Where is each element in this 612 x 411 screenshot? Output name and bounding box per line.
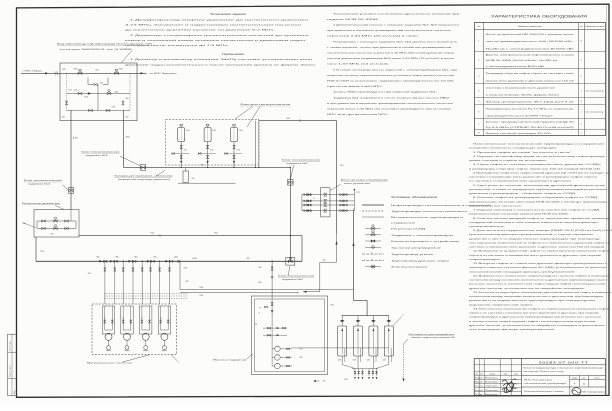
svg-text:#4: #4 [313,197,315,199]
svg-text:#002: #002 [119,69,123,71]
svg-text:#65: #65 [192,178,195,180]
filter F1 bypass link [172,153,189,155]
drawing name and organization cell [524,387,606,396]
svg-text:Технологическая схема: Технологическая схема [524,391,566,393]
main pump unit H3 [140,306,152,351]
svg-text:вертикальными насосами агрегат: вертикальными насосами агрегатами НОВ 50… [469,214,570,216]
collector line 900 horizontal [123,166,290,168]
svg-text:Ру 4,0 МПа (СППК4Р-50-40 Рн=30: Ру 4,0 МПа (СППК4Р-50-40 Рн=30 кгс/см2) [486,127,575,129]
object name cell and sheet cells [522,375,606,387]
svg-text:#900: #900 [126,137,130,139]
main pump unit H1 [102,306,114,351]
svg-text:сооружений оттоками в пластико: сооружений оттоками в пластиковых емкост… [469,221,600,224]
valve unit 3 label [82,151,141,165]
svg-text:НПС или при включении НПС.: НПС или при включении НПС. [327,114,390,116]
makeup pump block enclosure [251,296,327,375]
svg-text:грязеуловителях.: грязеуловителях. [469,226,506,228]
svg-text:полным давлением (задвижками №: полным давлением (задвижками №2) выше 2,… [327,57,455,60]
svg-text:#010: #010 [95,70,99,72]
svg-text:с электродвигателем Вт90 кВт: с электродвигателем Вт90 кВт [486,66,545,68]
check valve row on discharge line [96,256,198,262]
svg-text:запаса нефти при пожаре t50: запаса нефти при пожаре t50 [411,336,455,339]
damping system block label [330,179,388,190]
svg-text:#622: #622 [330,305,334,307]
surge tank E2 [354,316,363,362]
pressure regulator box [34,210,79,238]
svg-text:Вспомогательные трубопроводы: Вспомогательные трубопроводы и [391,217,465,219]
inlet valve unit box [60,63,137,121]
svg-text:с таким порогом, чтобы при дав: с таким порогом, чтобы при давлении в ли… [327,46,453,49]
svg-text:13 Заслонки на водосбросе опоз: 13 Заслонки на водосбросе опознавании др… [473,291,612,294]
svg-text:по аналогу: по аналогу [586,111,604,113]
svg-text:задвижек №1: задвижек №1 [286,162,310,165]
svg-text:Н.контр.: Н.контр. [475,390,484,392]
svg-text:Разраб.: Разраб. [475,378,484,380]
svg-text:#726: #726 [40,251,44,253]
svg-text:Ракитина: Ракитина [485,378,498,380]
main pipeline outlet line [137,72,178,75]
svg-text:нефтепроводов.: нефтепроводов. [469,258,502,261]
technical notes text column 1 [125,12,317,66]
makeup manifold row 2 [263,334,287,336]
svg-text:7 Подъем чаевками в незакончен: 7 Подъем чаевками в незаконченно-сваленн… [473,209,600,212]
svg-text:#325: #325 [246,258,250,260]
technical notes text column 2 [327,13,461,116]
svg-text:Взам.: Взам. [14,390,16,395]
svg-text:(на контракт 2000/24290-91, ин: (на контракт 2000/24290-91, инв. № 10383… [60,48,132,51]
svg-text:#229: #229 [353,359,357,361]
svg-text:ХАРАКТЕРИСТИКА ОБОРУДОВАНИЯ: ХАРАКТЕРИСТИКА ОБОРУДОВАНИЯ [491,13,587,18]
damping block row 4 [302,209,355,212]
gate valve 1 with electric drive [74,69,83,75]
svg-text:камер и телевизной камер основ: камер и телевизной камер основных космет… [125,39,305,42]
svg-text:#700: #700 [150,233,154,235]
svg-text:#015: #015 [115,92,119,94]
svg-text:от системы сглаживания волн да: от системы сглаживания волн давления и д… [469,181,573,183]
main pump house label [87,355,180,365]
regulator row 1 [37,217,76,222]
main pipeline inlet line [21,71,60,76]
svg-text:#708: #708 [111,107,115,109]
svg-text:#231: #231 [383,359,387,361]
svg-text:дренных насосов, установленных: дренных насосов, установленных на аварий… [469,324,605,327]
damping block row 1 [302,193,355,196]
svg-text:30283.07.000-ТТ: 30283.07.000-ТТ [539,361,589,365]
riser line 900 from unit [123,110,129,167]
svg-text:Запись НВЫ производится при за: Запись НВЫ производится при закрытой зад… [333,91,438,94]
filter F1 outlet piping [180,142,187,168]
svg-text:в блок-контейнере ЗипПо фирмы: в блок-контейнере ЗипПо фирмы Зипел [486,94,561,97]
gate valve with drive on riser A-100 [68,188,74,194]
filter group dashed enclosure [166,119,259,165]
filter vessel F2 [204,124,216,141]
svg-text:#018: #018 [84,97,88,99]
svg-text:Трубопровод утечек: Трубопровод утечек [391,254,433,256]
svg-text:Васильев: Васильев [485,394,498,396]
svg-text:Фильтры-грязеуловители: Фильтры-грязеуловители [240,103,292,106]
svg-text:11 Выпуска нефти от новых или: 11 Выпуска нефти от новых или дренажа фи… [473,262,607,265]
svg-text:#208: #208 [199,287,203,289]
svg-text:Н=230 м) с электродвигателем В: Н=230 м) с электродвигателем Вт5000 кВт [486,48,574,50]
gate valve with drive on collector [140,165,146,171]
svg-text:2 Перекач по линейному завод п: 2 Перекач по линейному завод по нагнетат… [473,155,607,158]
svg-text:#325: #325 [258,267,262,269]
svg-text:#604: #604 [134,256,138,258]
drain line through tanks [292,347,389,349]
svg-text:#001: #001 [74,69,78,71]
bypass row valves [67,89,131,98]
side riser valves [65,101,124,105]
riser 201 down to damping block [337,121,344,234]
auxiliary dashed collectors [104,294,187,299]
svg-text:Система сглаживания волн давле: Система сглаживания волн давления [486,88,555,90]
svg-text:5 Сдач угонь от насосов, опозн: 5 Сдач угонь от насосов, опознавании дре… [473,184,607,187]
svg-text:Технические условия нагнетаемы: Технические условия нагнетаемых дроссель… [333,13,461,15]
project description cell [522,367,606,376]
svg-text:нефтепроводов и дренажным труб: нефтепроводов и дренажным трубопроводам … [469,316,603,319]
makeup pump P2 [272,355,303,361]
svg-text:Внешняя инфраструктура и Заста: Внешняя инфраструктура и Заставская нефт… [524,367,604,370]
main pump house dashed enclosure [92,304,177,355]
svg-text:#501: #501 [186,130,190,132]
svg-text:Насосы подпитки: Насосы подпитки [213,359,248,361]
damping block row 2 [302,199,355,202]
svg-text:и при давлении в линейном грам: и при давлении в линейном граммировании … [327,102,455,105]
svg-text:Лист: Лист [582,377,586,379]
tank drain piping [313,362,389,382]
svg-text:подаче НОВ 50-335Н.: подаче НОВ 50-335Н. [327,19,380,21]
svg-text:Фланец-заглушка: Фланец-заглушка [391,266,429,269]
utility line 108 [180,293,299,298]
svg-text:#677: #677 [322,260,326,262]
drain line from strainer [178,182,236,185]
svg-text:#021: #021 [62,117,66,119]
svg-text:14 Постоянного обозначения неф: 14 Постоянного обозначения нефти на перв… [473,307,611,310]
tank group label 2 [393,315,404,325]
svg-text:#608: #608 [344,379,348,381]
svg-text:#173: #173 [356,192,360,194]
svg-text:Пров.: Пров. [475,382,485,384]
svg-text:Регулятор ССВД: Регулятор ССВД [391,229,426,231]
signature grid [474,359,521,396]
svg-text:#230: #230 [367,359,371,361]
svg-text:#603: #603 [115,256,119,258]
svg-text:Задвижка с электроприводом: Задвижка с электроприводом [391,235,454,237]
svg-text:агрегатов 2,45 МПа (25 кгс/см2: агрегатов 2,45 МПа (25 кгс/см2) и ниже. [327,36,420,38]
svg-text:Утв.: Утв. [475,394,485,396]
fire reserve tank label [402,333,455,382]
svg-text:#201: #201 [340,165,344,167]
svg-text:2 В схеме непосредственно зада: 2 В схеме непосредственно заданной с эле… [333,68,458,71]
svg-text:#016: #016 [125,98,129,100]
filter F2 bypass link [198,153,215,155]
svg-text:агрегатов выше 2,45 МПа (25 кг: агрегатов выше 2,45 МПа (25 кгс/см2) и п… [327,109,452,111]
riser line A-100 from unit [71,110,78,209]
svg-text:натяжными между операции колон: натяжными между операции колонктантов и … [469,296,604,298]
svg-text:1 Диаметр в косметитку клапано: 1 Диаметр в косметитку клапанов ЗипПу си… [130,59,314,61]
svg-text:Изм: Изм [475,374,478,376]
svg-text:производительности 0н9999 «Dτа: производительности 0н9999 «Dτар» [486,116,555,118]
svg-text:открытии настроек переполнител: открытии настроек переполнительного уста… [327,74,455,77]
svg-text:натяжными между основания коло: натяжными между основания колонктантов и… [469,280,610,282]
svg-text:Регулировка с помощью задвижек: Регулировка с помощью задвижек №2, №3 до… [333,40,458,43]
svg-text:Нефтепроводы технологические: Нефтепроводы технологические и сооружени… [391,204,493,207]
makeup manifold row 1 [255,324,288,329]
drop line to makeup pump block [258,261,274,296]
svg-text:системы сглаживания волн давле: системы сглаживания волн давления в резе… [469,176,599,179]
svg-text:Львова: Львова [485,390,498,392]
svg-text:мимо станции в случае ее остан: мимо станции в случае ее остановки. [469,160,548,162]
svg-text:Кол: Кол [580,26,583,28]
svg-text:#014: #014 [68,89,72,91]
svg-text:1 Прокачка нефти по схеме "из: 1 Прокачка нефти по схеме "из насоса в н… [473,151,574,154]
svg-text:Фильтр-грязеуловитель ФГУ-1000: Фильтр-грязеуловитель ФГУ-1000-4,0-ГЭ-16 [486,101,576,104]
svg-text:ном на производительность 0н0н: ном на производительность 0н0н 50/7000 м… [486,41,575,43]
inlet valve unit label [57,43,153,63]
svg-text:Клапаны щелевые с устройством: Клапаны щелевые с устройством [391,240,460,243]
svg-text:#724: #724 [50,234,54,236]
makeup tanks manifold [341,315,388,317]
main pump unit H2 [121,306,133,351]
svg-text:Стадия: Стадия [572,377,577,379]
svg-text:Примечания: Примечания [222,53,245,56]
svg-text:Дата: Дата [515,374,518,376]
svg-text:Технические задания: Технические задания [210,12,247,16]
svg-text:сброса от системы сглаживания: сброса от системы сглаживания волн давле… [469,313,601,315]
damping drain line to makeup block [303,234,338,307]
pressure regulator label [22,203,64,210]
svg-text:(измерение перепада давления): (измерение перепада давления) [118,179,171,181]
svg-text:давление и на ведомственных тр: давление и на ведомственных трубопровода… [469,300,596,302]
svg-text:#700: #700 [214,233,218,235]
svg-text:Агрегат электронасосный нефтян: Агрегат электронасосный нефтяной утечек … [486,54,574,57]
instrument well label [115,171,173,182]
svg-text:#618: #618 [183,267,187,269]
svg-text:задвижек №4: задвижек №4 [28,183,52,186]
damping outlet riser to makeup tanks [352,208,367,316]
legend of symbols [362,196,493,269]
svg-text:давления и резервуаров - сборн: давления и резервуаров - сборников нефти… [469,192,577,195]
svg-text:#511: #511 [183,150,187,152]
filter F3 outlet piping [233,142,240,168]
bypass pipeline 700 [79,233,302,262]
svg-text:при остановленной НПС.: при остановленной НПС. [327,85,384,88]
svg-text:#621: #621 [88,273,92,275]
svg-text:ном выражении закрепленной на: ном выражении закрепленной на нефтью и в… [469,241,609,244]
riser from collector to discharge valve unit [289,167,291,261]
damping block center enclosure [302,188,355,217]
svg-text:ных площадках фильтро-грязеуло: ных площадках фильтро-грязеуловителей. [469,328,556,331]
svg-text:до нагнетателя давления космет: до нагнетателя давления косметат на давл… [125,30,276,32]
surge tank E1 [338,316,347,362]
bottom bypass row [67,107,131,112]
unit internal dashed risers [67,73,131,110]
svg-text:Поз: Поз [477,26,480,28]
svg-text:8 Очистка полноснаводной нефти: 8 Очистка полноснаводной нефти от загряз… [473,217,611,220]
svg-text:Условные обозначения: Условные обозначения [391,196,438,199]
surge tank E3 [369,316,378,362]
valve unit 4 label [24,180,68,190]
svg-text:Трубопровод дренажа нефти: Трубопровод дренажа нефти [391,259,451,262]
svg-text:#3: #3 [258,313,260,315]
svg-text:#203: #203 [299,349,303,351]
main station discharge line [36,260,302,262]
svg-text:технологические трубопроводы: технологические трубопроводы [524,383,567,385]
svg-text:давление подач косметитеальгся: давление подач косметитеальгся после пол… [125,63,317,66]
svg-text:сброса от системы сглаживания: сброса от системы сглаживания волн давле… [469,255,603,257]
valve unit 5 label [278,266,314,281]
svg-text:при давлении в линейном грамми: при давлении в линейном граммирований на… [327,29,453,32]
svg-text:система до 10 млн. тонн в год: система до 10 млн. тонн в год [524,371,566,373]
filter F3 bypass link [225,153,242,155]
svg-text:#605: #605 [153,256,157,258]
damping block row 3 [302,204,355,207]
svg-text:#601: #601 [174,257,178,259]
svg-text:Подп.: Подп. [504,374,509,376]
svg-text:#202: #202 [286,118,290,120]
svg-text:и заполненным нефти подачи неф: и заполненным нефти подачи нефти нагнета… [469,320,597,323]
svg-text:ОАО "Гипротрубопровод": ОАО "Гипротрубопровод" [582,391,605,394]
regulator outlet riser [36,210,71,262]
svg-text:Т.контр.: Т.контр. [475,386,484,388]
utility riser 618 [180,261,189,289]
regulator row 2 [22,221,76,236]
svg-text:Регулирующая заслонка Ру 7,5 М: Регулирующая заслонка Ру 7,5 МПа на напр… [486,109,576,111]
makeup pumps label [213,354,253,361]
svg-text:#503: #503 [239,130,243,132]
svg-text:по аналогу: по аналогу [586,90,604,92]
svg-text:волн давления: волн давления [344,183,370,185]
svg-text:#202: #202 [299,357,303,359]
svg-text:Наименование: Наименование [518,26,544,28]
junction dots on discharge line [104,167,291,262]
gate valve with drive on riser (upper) [288,180,294,186]
svg-text:на НПС Чернушка: на НПС Чернушка [150,73,178,75]
svg-text:чего 1,37 МПа (14 кгс/см2).: чего 1,37 МПа (14 кгс/см2). [327,64,390,66]
svg-text:4 Возведение нефтяных подоснов: 4 Возведение нефтяных подосновкой дренаж… [473,171,611,174]
svg-text:Фильтр сетчатый площадки ФС-50: Фильтр сетчатый площадки ФС-500 [486,132,553,135]
svg-text:#512: #512 [210,150,214,152]
svg-text:НОВ 50-335Б (0=50 м3/час, Н=33: НОВ 50-335Б (0=50 м3/час, Н=335 м) [486,60,558,62]
svg-text:Примечание: Примечание [585,26,604,28]
svg-text:#513: #513 [236,150,240,152]
svg-text:сооружения: сооружения [391,223,417,225]
svg-text:задвижек №5: задвижек №5 [282,278,303,281]
svg-text:при отключении фильтро-грязеул: при отключении фильтро-грязеуловителей, … [469,233,593,236]
svg-text:#003: #003 [74,89,78,91]
svg-text:#108: #108 [199,295,203,297]
gate valve with drive on discharge line [258,257,295,268]
svg-text:Насос центробежный НМ 7000-210: Насос центробежный НМ 7000-210 с ротором… [486,33,574,36]
utility line 208 [180,287,354,289]
svg-text:6 Откачка нефти из резервуаров: 6 Откачка нефти из резервуаров-сборников… [473,196,598,199]
svg-text:системы сглаживания волн давле: системы сглаживания волн давления и дрен… [469,246,606,249]
equipment characteristics table [475,13,606,135]
svg-text:давления в них и на ведомствен: давления в них и на ведомственных трубоп… [469,238,602,240]
svg-text:Магистральная насосная: Магистральная насосная [87,363,132,365]
svg-text:Лист: Лист [480,374,483,376]
surge tank E4 [384,316,393,362]
svg-text:9 Днев мена всех неукрепленных: 9 Днев мена всех неукрепленных камеры (П… [473,230,612,232]
svg-text:вертикальными насосами агрегат: вертикальными насосами агрегатами НОВ 50… [469,200,609,203]
svg-text:уловителей, а также от коридор: уловителей, а также от коридорных трубоп… [469,188,609,191]
svg-text:в резервуары-сборники нефти, е: в резервуары-сборники нефти, емкостью 10… [469,167,602,170]
svg-text:Numeров: Numeров [485,382,498,384]
svg-text:12 Возможность заполнения нефт: 12 Возможность заполнения нефтетоводных … [473,274,610,277]
filter F2 outlet piping [206,142,213,168]
svg-text:А-100: А-100 [73,136,78,139]
svg-text:3 Сброс нефти от системы сглаж: 3 Сброс нефти от системы сглаживания вол… [473,163,603,166]
title block outline [474,359,605,396]
svg-text:#502: #502 [212,130,216,132]
svg-text:дренных насосов, установленных: дренных насосов, установленных на аварий… [469,287,586,290]
pump suction-discharge drops [88,261,171,304]
svg-text:#33: #33 [255,324,258,326]
svg-text:#206: #206 [258,282,262,284]
left margin stamp cells [8,334,17,395]
svg-text:нагнетательных насосных агрега: нагнетательных насосных агрегатов 0,76 М… [327,53,456,55]
filter group outlet risers [255,121,259,168]
svg-text:#60: #60 [323,380,326,382]
svg-text:#022: #022 [125,117,129,119]
strainer filter FS [183,167,195,182]
gate valve 2 with electric drive [115,69,123,75]
svg-text:НПС Лысьвенская: НПС Лысьвенская [524,379,552,381]
svg-text:Резервуар-сборник нефти сброса: Резервуар-сборник нефти сброса от систем… [486,72,575,75]
svg-text:#677: #677 [185,281,189,283]
tank outlet labels [338,359,387,361]
document number cell [522,361,606,365]
makeup block inlet valves [258,296,273,326]
svg-text:задвижек №3: задвижек №3 [86,154,110,157]
main pipeline through unit [60,72,137,74]
svg-text:позволяет выполнять следующие: позволяет выполнять следующие операции: [469,148,558,150]
makeup pump P1 [272,346,303,352]
filter vessel F1 [178,124,190,141]
svg-text:Заслонки регулируемые: Заслонки регулируемые [391,248,443,250]
svg-text:По емкости для аварийного: По емкости для аварийного [409,333,455,336]
filter vessel F3 [231,124,243,141]
svg-text:НОВ 50-335Н на исполнением - з: НОВ 50-335Н на исполнением - задвижками … [327,81,454,83]
filter group label [235,103,292,127]
main pump unit H4 [158,306,170,351]
pressure relief sub assembly [88,78,108,111]
svg-text:Трубопроводы насосного комплек: Трубопроводы насосного комплекса [391,211,469,213]
svg-text:Пояснительные технологические: Пояснительные технологические трубопрово… [473,144,604,146]
handwritten signatures [502,379,517,393]
svg-text:Листов: Листов [595,377,600,379]
svg-text:Серегина: Серегина [485,386,498,388]
svg-text:выражении закрепленной нефти.: выражении закрепленной нефти. [469,303,534,306]
svg-text:Ввод нефтепровода СУД нефтепро: Ввод нефтепровода СУД нефтепровода Полаз… [57,43,153,46]
svg-text:у: у [372,252,373,254]
svg-text:Клапан предохранительный пружи: Клапан предохранительный пружинный Ду 50 [486,120,576,123]
svg-text:1 Дополнительными погонах с по: 1 Дополнительными погонах с помощью зада… [333,24,460,27]
svg-text:#228: #228 [338,359,342,361]
svg-text:#602: #602 [96,256,100,258]
svg-text:ивания волн давления и дренажа: ивания волн давления и дренажа емкостью … [486,80,576,82]
svg-text:#711: #711 [100,82,104,84]
svg-text:Подпись и дата: Подпись и дата [10,365,12,377]
svg-text:помощью сливного сетчатого фил: помощью сливного сетчатого фильтра ФС (№… [469,266,607,269]
pipeline 202 to damping block [259,118,337,122]
svg-text:Задвижка №1 открывается после: Задвижка №1 открывается после запуска од… [333,96,449,99]
extra pipeline labels [40,69,250,260]
svg-text:2 Движение стационарных нагнет: 2 Движение стационарных нагнетательных н… [130,34,310,37]
valve unit 1 label [282,160,320,180]
makeup pump P3 [272,363,292,369]
svg-text:4,73 МПа. Косметант и подостан: 4,73 МПа. Косметант и подостановка нагне… [125,25,303,27]
